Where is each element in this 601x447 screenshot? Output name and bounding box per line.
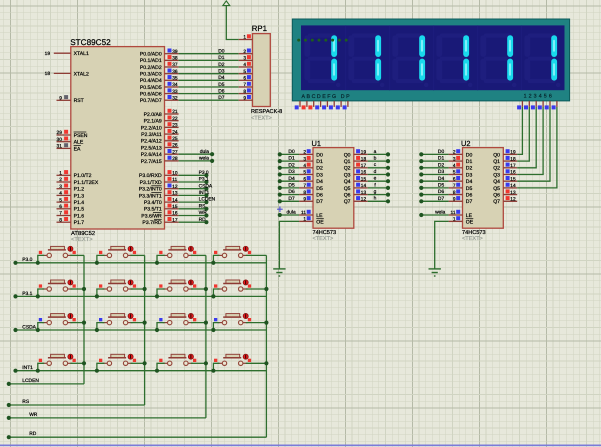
wire net e from U1 Q4: [368, 180, 388, 182]
svg-text:D0: D0: [466, 152, 473, 158]
display segment pin a: [299, 101, 301, 107]
svg-text:4: 4: [243, 62, 246, 68]
svg-text:12: 12: [361, 197, 367, 203]
U3 pin 22 P2.1/A9: [165, 120, 179, 122]
junction P3.1 at U3 side: [204, 180, 208, 184]
wire S6 right terminal to column 2: [131, 288, 145, 290]
wire net f from U1 Q5: [368, 187, 388, 189]
svg-text:P2.5/A13: P2.5/A13: [141, 145, 162, 151]
svg-text:INT1: INT1: [199, 190, 210, 196]
svg-text:P1.5: P1.5: [74, 207, 85, 213]
display digit 1 showing 1: [308, 34, 336, 38]
svg-text:Q0: Q0: [493, 152, 500, 158]
svg-text:1: 1: [453, 217, 456, 223]
wire net WR from U3 pin 16: [179, 215, 207, 217]
push button S1 (row P3.0, col LCDEN): [48, 249, 66, 251]
svg-text:18: 18: [45, 71, 51, 77]
wire net D1 into U2: [421, 160, 448, 162]
push button S2 (row P3.0, col RS): [108, 249, 126, 251]
svg-text:8: 8: [303, 190, 306, 196]
svg-text:28: 28: [172, 156, 178, 162]
junction CSDA row left end: [13, 328, 17, 332]
svg-text:74HC573: 74HC573: [462, 230, 486, 236]
svg-text:XTAL1: XTAL1: [74, 51, 89, 57]
junction S16 at column 4: [264, 361, 268, 365]
wire net d from U1 Q3: [368, 174, 388, 176]
svg-text:ALE: ALE: [74, 140, 84, 146]
display inner window: [301, 25, 565, 90]
svg-text:D4: D4: [316, 179, 323, 185]
svg-text:14: 14: [510, 183, 516, 189]
U3 pin 23 P2.2/A10: [165, 126, 179, 128]
U3 pin 39 P0.0/AD0: [165, 53, 179, 55]
wire S5 right terminal to column 1: [70, 288, 84, 290]
wire S3 right terminal to column 3: [191, 254, 206, 256]
svg-text:33: 33: [172, 89, 178, 95]
U1 pin 2 D0: [299, 153, 313, 155]
wire net D4 into U1: [280, 180, 299, 182]
junction S7 at row P3.1: [155, 294, 159, 298]
U3 pin 1 P1.0/T2: [57, 174, 71, 176]
svg-text:D2: D2: [288, 162, 295, 168]
wire net D6 into U1: [280, 194, 299, 196]
display digit 5 showing 1: [484, 34, 512, 38]
wire S5 left terminal to row P3.1: [38, 289, 44, 296]
display digit 2 showing 1: [352, 34, 380, 38]
svg-text:OE: OE: [316, 219, 324, 225]
svg-text:Q5: Q5: [493, 186, 500, 192]
junction D5 at U2: [419, 186, 423, 190]
ground symbol below U1: [273, 268, 285, 270]
wire keypad row net P3.0: [16, 262, 267, 264]
junction P3.1 row left end: [13, 294, 17, 298]
wire S1 left terminal to row P3.0: [38, 255, 44, 262]
svg-text:Q3: Q3: [493, 172, 500, 178]
U3 pin 38 P0.1/AD1: [165, 59, 179, 61]
svg-text:32: 32: [172, 96, 178, 102]
svg-text:OE: OE: [466, 219, 474, 225]
wire S6 left terminal to row P3.1: [97, 289, 105, 296]
svg-text:LCDEN: LCDEN: [199, 197, 216, 203]
junction dula at U1: [278, 213, 282, 217]
svg-text:D2: D2: [218, 62, 225, 68]
U3 pin 27 P2.6/A14: [165, 153, 179, 155]
display digit 3 showing 1: [396, 34, 424, 38]
junction S6 at row P3.1: [95, 294, 99, 298]
svg-text:P0.0/AD0: P0.0/AD0: [140, 52, 162, 58]
U3 pin 8 P1.7: [57, 221, 71, 223]
junction dula at U3 side: [210, 152, 214, 156]
svg-text:P1.3: P1.3: [74, 193, 85, 199]
svg-text:P3.3/INT1: P3.3/INT1: [139, 193, 162, 199]
wire S9 left terminal to row CSDA: [38, 323, 44, 330]
U3 pin 12 P3.2: [165, 188, 179, 190]
wire net D2 into U1: [280, 167, 299, 169]
svg-text:11: 11: [172, 177, 177, 183]
svg-text:27: 27: [172, 149, 178, 155]
svg-text:8: 8: [59, 217, 62, 223]
push button S10 (row CSDA, col RS): [108, 316, 126, 318]
wire S12 right terminal to column 4: [246, 322, 267, 324]
display segment pin g: [340, 101, 342, 107]
svg-text:6: 6: [303, 176, 306, 182]
svg-text:LE: LE: [316, 213, 323, 219]
display digit pin 2: [528, 101, 530, 107]
svg-text:D1: D1: [316, 159, 323, 165]
wire keypad column 1 vertical to LCDEN: [83, 255, 85, 384]
U2 pin 3 D1: [449, 160, 463, 162]
svg-text:dula: dula: [286, 210, 296, 216]
svg-text:Q7: Q7: [493, 199, 500, 205]
U2 pin 4 D2: [449, 167, 463, 169]
display digit 4 showing 1: [440, 34, 468, 38]
wire net D3 into U1: [280, 174, 299, 176]
wire U1 OE to ground: [279, 221, 299, 269]
svg-text:RS: RS: [199, 203, 207, 209]
junction D5 at U1: [278, 186, 282, 190]
junction D3 at U2: [419, 172, 423, 176]
svg-text:P3.2/INT0: P3.2/INT0: [139, 187, 162, 193]
U3 pin 34 P0.5/AD5: [165, 86, 179, 88]
svg-text:10: 10: [172, 171, 178, 177]
svg-text:74HC573: 74HC573: [313, 230, 337, 236]
U2 pin 13 Q6: [503, 194, 517, 196]
junction D0 at U2: [419, 152, 423, 156]
svg-text:P1.0/T2: P1.0/T2: [74, 173, 92, 179]
wire net D5 from U3 P0.5 to RP1 pin 7: [179, 86, 239, 88]
wire net dula from U3 pin 27: [179, 153, 213, 155]
wire digit select 2 from U2 Q1 to display: [517, 107, 529, 161]
svg-text:29: 29: [57, 130, 63, 136]
wire S9 right terminal to column 1: [70, 322, 84, 324]
push button S16 (row INT1, col RD): [223, 357, 241, 359]
svg-text:P3.0: P3.0: [22, 257, 32, 263]
wire keypad bottom net WR: [9, 417, 206, 419]
wire net D7 into U1: [280, 200, 299, 202]
svg-text:D7: D7: [466, 199, 473, 205]
svg-text:39: 39: [172, 49, 178, 55]
U3 pin 9 RST: [57, 99, 71, 101]
svg-text:15: 15: [361, 176, 367, 182]
svg-text:P0.3/AD3: P0.3/AD3: [140, 72, 162, 78]
junction CSDA at U3 side: [204, 187, 208, 191]
wire U2 OE to ground: [435, 221, 449, 269]
svg-text:U1: U1: [312, 139, 321, 148]
junction D1 at U2: [419, 159, 423, 163]
wire digit select 6 from U2 Q5 to display: [517, 107, 557, 188]
U3 pin 7 P1.6: [57, 215, 71, 217]
junction D2 at U2: [419, 166, 423, 170]
wire keypad row net INT1: [16, 370, 267, 372]
svg-text:D5: D5: [438, 183, 445, 189]
wire net P3.1 from U3 pin 11: [179, 181, 207, 183]
wire S8 right terminal to column 4: [246, 288, 267, 290]
svg-text:D3: D3: [316, 172, 323, 178]
U3 pin 36 P0.3/AD3: [165, 73, 179, 75]
U3 pin 35 P0.4/AD4: [165, 79, 179, 81]
svg-text:P3.6/WR: P3.6/WR: [141, 213, 162, 219]
svg-text:P2.1/A9: P2.1/A9: [144, 119, 162, 125]
U3 pin 32 P0.7/AD7: [165, 99, 179, 101]
svg-text:26: 26: [172, 143, 178, 149]
junction D7 at U2: [419, 199, 423, 203]
wire net D2 from U3 P0.2 to RP1 pin 4: [179, 66, 239, 68]
svg-text:D5: D5: [288, 183, 295, 189]
svg-text:D5: D5: [466, 186, 473, 192]
svg-text:P3.1: P3.1: [22, 291, 32, 297]
svg-text:9: 9: [243, 96, 246, 102]
wire net h from U1 Q7: [368, 200, 388, 202]
U3 pin 19 XTAL1: [54, 52, 71, 54]
junction S15 at row INT1: [155, 369, 159, 373]
svg-text:Q4: Q4: [493, 179, 500, 185]
U1 pin 12 Q7: [354, 200, 368, 202]
wire keypad column 4 vertical to RD: [265, 255, 267, 437]
wire net RD from U3 pin 17: [179, 221, 207, 223]
U3 pin 14 P3.4: [165, 201, 179, 203]
wire net dula into U1 LE: [280, 214, 299, 216]
svg-text:18: 18: [510, 156, 516, 162]
junction D0 at U1: [278, 152, 282, 156]
wire net D7 from U3 P0.7 to RP1 pin 9: [179, 99, 239, 101]
U3 pin 11 P3.1: [165, 181, 179, 183]
microcontroller U3 AT89C52 body: [71, 47, 165, 229]
U2 pin 2 D0: [449, 153, 463, 155]
wire net D6 into U2: [421, 194, 448, 196]
wire net D1 into U1: [280, 160, 299, 162]
svg-text:3: 3: [303, 156, 306, 162]
svg-text:D0: D0: [218, 49, 225, 55]
junction RS left end: [7, 403, 11, 407]
wire net P3.0 from U3 pin 10: [179, 174, 207, 176]
junction S10 at row CSDA: [95, 328, 99, 332]
wire S4 left terminal to row P3.0: [213, 255, 219, 262]
junction S4 at row P3.0: [211, 261, 215, 265]
svg-text:D4: D4: [438, 176, 445, 182]
svg-text:14: 14: [172, 197, 178, 203]
svg-text:D6: D6: [288, 189, 295, 195]
junction S11 at column 3: [204, 321, 208, 325]
junction S11 at row CSDA: [155, 328, 159, 332]
junction WR at U3 side: [204, 213, 208, 217]
marker cross near U1 dula: [277, 208, 283, 210]
resistor pack RP1 body: [253, 34, 271, 107]
U3 pin 3 P1.2: [57, 188, 71, 190]
display segment pin b: [306, 101, 308, 107]
junction S1 at row P3.0: [36, 261, 40, 265]
junction h at U1: [386, 199, 390, 203]
U3 pin 4 P1.3: [57, 194, 71, 196]
U1 pin 13 Q6: [354, 194, 368, 196]
junction D1 at U1: [278, 159, 282, 163]
wire S11 left terminal to row CSDA: [157, 323, 165, 330]
display segment pin d: [320, 101, 322, 107]
junction f at U1: [386, 186, 390, 190]
svg-text:P1.6: P1.6: [74, 213, 85, 219]
junction P3.0 row left end: [13, 261, 17, 265]
svg-text:e: e: [374, 177, 377, 182]
display digit pin 6: [556, 101, 558, 107]
svg-text:1: 1: [303, 217, 306, 223]
wire net D6 from U3 P0.6 to RP1 pin 8: [179, 93, 239, 95]
svg-text:7: 7: [303, 183, 306, 189]
svg-text:WR: WR: [29, 412, 38, 418]
svg-text:18: 18: [361, 156, 367, 162]
svg-text:dula: dula: [200, 149, 210, 155]
svg-text:36: 36: [172, 69, 178, 75]
wire keypad column 3 vertical to WR: [205, 255, 207, 418]
wire net D0 into U2: [421, 153, 448, 155]
junction g at U1: [386, 193, 390, 197]
push button S15 (row INT1, col WR): [168, 357, 186, 359]
svg-text:P3.1: P3.1: [199, 177, 209, 183]
svg-text:STC89C52: STC89C52: [70, 38, 111, 47]
push button S4 (row P3.0, col RD): [223, 249, 241, 251]
display segment pin h: [347, 101, 349, 107]
wire S7 right terminal to column 3: [191, 288, 206, 290]
svg-text:7: 7: [59, 211, 62, 217]
svg-text:D3: D3: [438, 169, 445, 175]
svg-text:CSDA: CSDA: [22, 324, 36, 330]
wire S2 right terminal to column 2: [131, 254, 145, 256]
svg-text:D1: D1: [438, 156, 445, 162]
svg-text:P2.4/A12: P2.4/A12: [141, 139, 162, 145]
svg-text:P3.7/RD: P3.7/RD: [142, 220, 162, 226]
U2 pin 11 LE: [449, 214, 463, 216]
wire S10 right terminal to column 2: [131, 322, 145, 324]
svg-text:Q5: Q5: [344, 186, 351, 192]
svg-text:5: 5: [243, 69, 246, 75]
svg-text:D6: D6: [438, 189, 445, 195]
svg-text:1: 1: [59, 171, 62, 177]
U1 pin 19 Q0: [354, 153, 368, 155]
junction D6 at U1: [278, 193, 282, 197]
U3 pin 28 P2.7/A15: [165, 160, 179, 162]
wire net wela into U2 LE: [421, 214, 448, 216]
wire net LCDEN from U3 pin 14: [179, 201, 207, 203]
svg-text:5: 5: [59, 197, 62, 203]
junction S8 at row P3.1: [211, 294, 215, 298]
U2 pin 12 Q7: [503, 200, 517, 202]
display digit pin 1: [521, 101, 523, 107]
junction S16 at row INT1: [211, 369, 215, 373]
junction INT1 row left end: [13, 369, 17, 373]
svg-text:RD: RD: [29, 431, 37, 437]
svg-text:D1: D1: [218, 55, 225, 61]
junction S14 at row INT1: [95, 369, 99, 373]
wire S7 left terminal to row P3.1: [157, 289, 165, 296]
U2 pin 8 D6: [449, 194, 463, 196]
svg-text:D4: D4: [466, 179, 473, 185]
RP1 pin 1: [239, 39, 253, 41]
wire S4 right terminal to column 4: [246, 254, 267, 256]
svg-text:<TEXT>: <TEXT>: [71, 237, 93, 243]
display digit pin 5: [549, 101, 551, 107]
junction S6 at column 2: [143, 287, 147, 291]
svg-text:P1.2: P1.2: [74, 187, 85, 193]
svg-text:Q2: Q2: [344, 166, 351, 172]
push button S13 (row INT1, col LCDEN): [48, 357, 66, 359]
svg-text:a: a: [374, 150, 377, 155]
wire net D2 into U2: [421, 167, 448, 169]
svg-text:P0.5/AD5: P0.5/AD5: [140, 85, 162, 91]
svg-text:D4: D4: [288, 176, 295, 182]
svg-text:wela: wela: [199, 156, 209, 162]
svg-text:D2: D2: [316, 166, 323, 172]
U1 pin 14 Q5: [354, 187, 368, 189]
U1 pin 15 Q4: [354, 180, 368, 182]
svg-text:3: 3: [453, 156, 456, 162]
svg-text:31: 31: [57, 144, 63, 150]
wire keypad bottom net RS: [9, 404, 145, 406]
RP1 pin 4: [239, 66, 253, 68]
svg-text:D0: D0: [438, 149, 445, 155]
junction S9 at column 1: [82, 321, 86, 325]
svg-text:RESPACK-8: RESPACK-8: [251, 109, 282, 115]
svg-text:d: d: [374, 169, 377, 175]
svg-text:P0.6/AD6: P0.6/AD6: [140, 92, 162, 98]
U3 pin 5 P1.4: [57, 201, 71, 203]
wire S2 left terminal to row P3.0: [97, 255, 105, 262]
svg-text:23: 23: [172, 123, 178, 129]
display segment pin c: [313, 101, 315, 107]
push button S14 (row INT1, col RS): [108, 357, 126, 359]
svg-text:Q7: Q7: [344, 199, 351, 205]
wire net D3 into U2: [421, 174, 448, 176]
svg-text:25: 25: [172, 136, 178, 142]
U3 pin 33 P0.6/AD6: [165, 93, 179, 95]
U3 pin 26 P2.5/A13: [165, 147, 179, 149]
wire net D4 into U2: [421, 180, 448, 182]
svg-text:P2.0/A8: P2.0/A8: [144, 112, 162, 118]
wire S15 left terminal to row INT1: [157, 363, 165, 370]
wire net CSDA from U3 pin 12: [179, 188, 207, 190]
svg-text:D7: D7: [218, 95, 225, 101]
svg-text:3: 3: [59, 184, 62, 190]
wire net b from U1 Q1: [368, 160, 388, 162]
push button S3 (row P3.0, col WR): [168, 249, 186, 251]
junction a at U1: [386, 152, 390, 156]
svg-text:D6: D6: [466, 193, 473, 199]
svg-text:5: 5: [453, 170, 456, 176]
wire digit select 4 from U2 Q3 to display: [517, 107, 543, 175]
svg-text:P1.4: P1.4: [74, 200, 85, 206]
junction S7 at column 3: [204, 287, 208, 291]
U1 pin 6 D4: [299, 180, 313, 182]
junction c at U1: [386, 166, 390, 170]
junction S15 at column 3: [204, 361, 208, 365]
svg-text:P0.1/AD1: P0.1/AD1: [140, 58, 162, 64]
svg-text:9: 9: [453, 197, 456, 203]
wire S11 right terminal to column 3: [191, 322, 206, 324]
svg-text:6: 6: [243, 76, 246, 82]
junction RD at U3 side: [204, 220, 208, 224]
junction S14 at column 2: [143, 361, 147, 365]
display segment pin e: [326, 101, 328, 107]
junction e at U1: [386, 179, 390, 183]
junction S2 at row P3.0: [95, 261, 99, 265]
svg-text:24: 24: [172, 129, 178, 135]
junction S5 at column 1: [82, 287, 86, 291]
svg-text:b: b: [374, 156, 377, 162]
wire net RS from U3 pin 15: [179, 208, 207, 210]
U2 pin 16 Q3: [503, 174, 517, 176]
junction S12 at column 4: [264, 321, 268, 325]
wire digit select 1 from U2 Q0 to display: [517, 107, 522, 154]
wire net g from U1 Q6: [368, 194, 388, 196]
U1 pin 17 Q2: [354, 167, 368, 169]
wire S16 left terminal to row INT1: [213, 363, 219, 370]
